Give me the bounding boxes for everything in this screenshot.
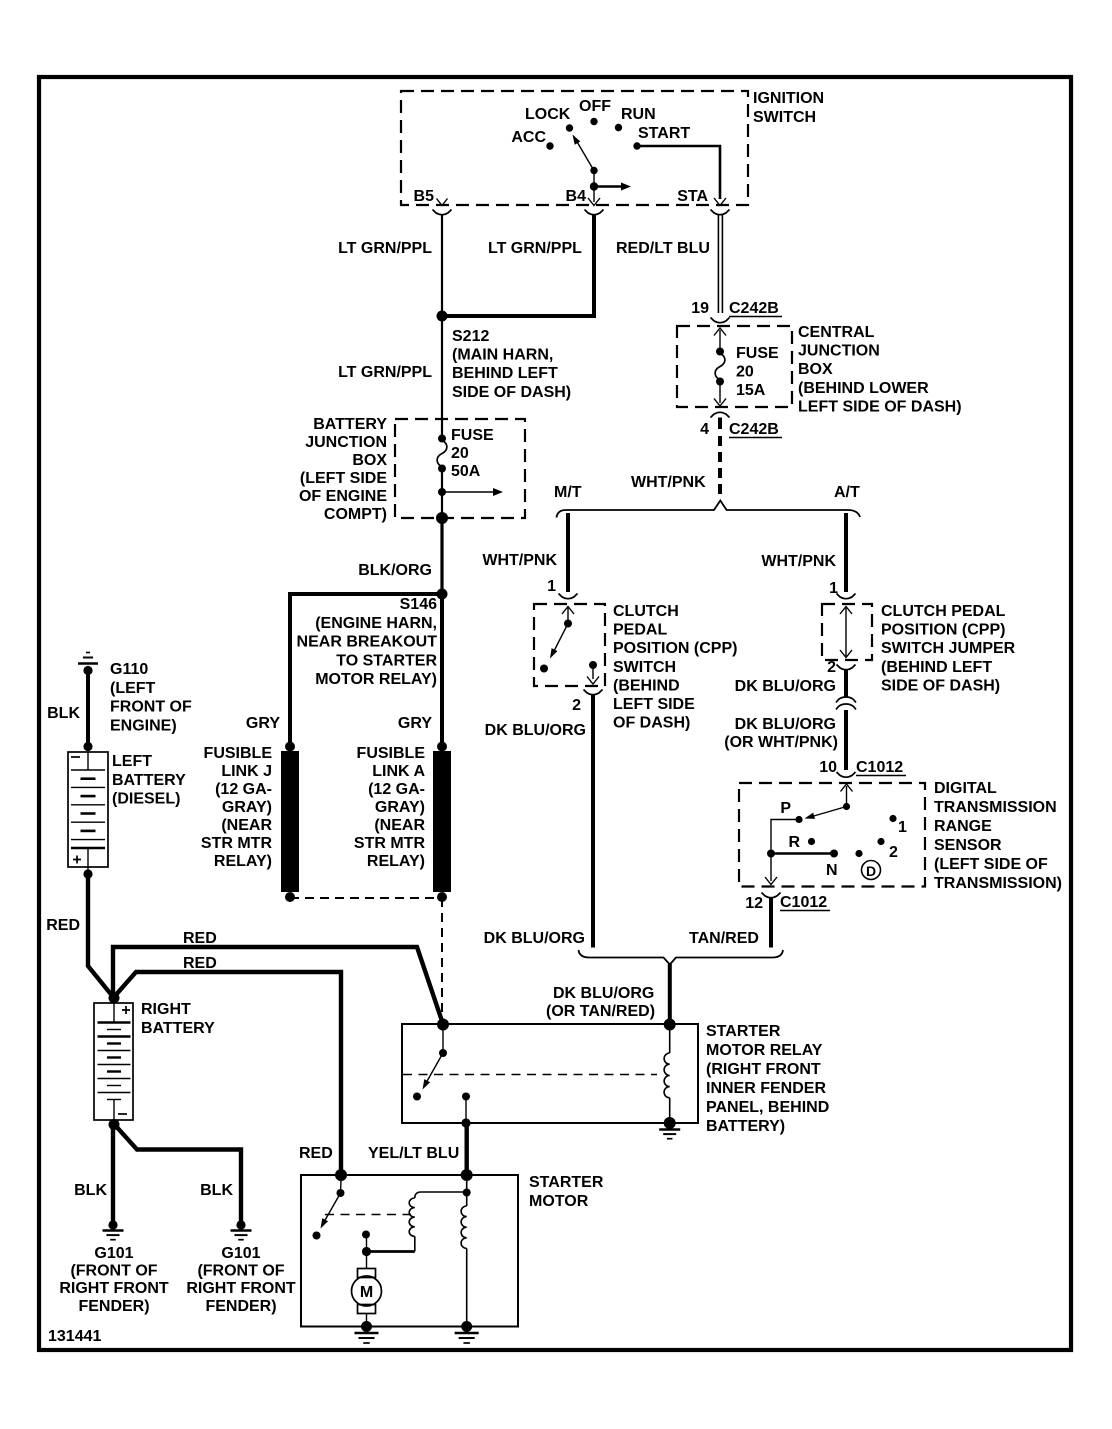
svg-text:20: 20 <box>451 445 469 462</box>
svg-text:(12 GA-: (12 GA- <box>368 781 425 798</box>
svg-text:LT GRN/PPL: LT GRN/PPL <box>488 240 582 257</box>
svg-text:50A: 50A <box>451 463 481 480</box>
svg-text:(OR TAN/RED): (OR TAN/RED) <box>546 1003 655 1020</box>
svg-text:MOTOR RELAY: MOTOR RELAY <box>706 1042 823 1059</box>
svg-text:CENTRAL: CENTRAL <box>798 324 875 341</box>
svg-text:RED/LT BLU: RED/LT BLU <box>616 240 710 257</box>
fusible link A <box>354 742 451 903</box>
svg-text:FENDER): FENDER) <box>205 1298 276 1315</box>
clutch pedal position switch jumper <box>822 603 1016 694</box>
BJB output node with arrow <box>438 488 503 496</box>
connector pin 2 CPP jumper <box>827 659 855 676</box>
svg-text:SWITCH: SWITCH <box>613 659 676 676</box>
svg-text:(LEFT SIDE OF: (LEFT SIDE OF <box>934 856 1048 873</box>
svg-text:START: START <box>638 125 690 142</box>
connector C1012 pin 10 <box>819 759 906 777</box>
svg-text:S212: S212 <box>452 328 489 345</box>
connector at B5 <box>433 210 452 215</box>
svg-text:4: 4 <box>700 421 709 438</box>
svg-text:MOTOR: MOTOR <box>529 1193 589 1210</box>
svg-text:TO STARTER: TO STARTER <box>336 652 437 669</box>
svg-text:STR MTR: STR MTR <box>354 835 426 852</box>
svg-text:TRANSMISSION: TRANSMISSION <box>934 799 1057 816</box>
svg-text:SIDE OF DASH): SIDE OF DASH) <box>452 384 571 401</box>
svg-text:B4: B4 <box>566 188 587 205</box>
terminal STA <box>677 188 726 206</box>
starter internal dashed link <box>325 1214 411 1216</box>
starter hold-in ground <box>455 1332 479 1334</box>
svg-text:DK BLU/ORG: DK BLU/ORG <box>735 678 836 695</box>
svg-text:BATTERY: BATTERY <box>141 1020 215 1037</box>
svg-text:FUSE: FUSE <box>451 427 494 444</box>
svg-text:15A: 15A <box>736 382 766 399</box>
svg-text:STARTER: STARTER <box>529 1174 604 1191</box>
svg-text:STARTER: STARTER <box>706 1023 781 1040</box>
svg-text:RED: RED <box>183 955 217 972</box>
svg-text:G110: G110 <box>110 661 148 678</box>
svg-text:10: 10 <box>819 759 837 776</box>
svg-text:LEFT: LEFT <box>112 753 152 770</box>
svg-text:TAN/RED: TAN/RED <box>689 930 759 947</box>
svg-text:RED: RED <box>299 1145 333 1162</box>
svg-text:(FRONT OF: (FRONT OF <box>70 1263 157 1280</box>
svg-text:DK BLU/ORG: DK BLU/ORG <box>484 930 585 947</box>
svg-text:GRAY): GRAY) <box>222 799 272 816</box>
svg-text:20: 20 <box>736 363 754 380</box>
svg-text:C1012: C1012 <box>856 759 903 776</box>
svg-text:BLK/ORG: BLK/ORG <box>358 562 432 579</box>
svg-text:NEAR BREAKOUT: NEAR BREAKOUT <box>297 634 438 651</box>
svg-text:S146: S146 <box>400 596 437 613</box>
ignition internal START wire <box>637 146 720 199</box>
connector at STA <box>711 210 730 215</box>
wire STA RED/LT BLU double line <box>616 215 722 313</box>
svg-text:(NEAR: (NEAR <box>221 817 272 834</box>
svg-text:LINK A: LINK A <box>372 763 425 780</box>
wire to C1012 DK BLU/ORG (OR WHT/PNK) <box>724 710 846 770</box>
connector C242B pin 19 <box>691 300 782 323</box>
right battery <box>94 993 215 1131</box>
svg-text:(RIGHT FRONT: (RIGHT FRONT <box>706 1061 821 1078</box>
ground G101 left <box>59 1220 169 1314</box>
svg-text:RUN: RUN <box>621 106 656 123</box>
dashed wire WHT/PNK from C242B <box>631 436 720 497</box>
svg-text:(DIESEL): (DIESEL) <box>112 791 180 808</box>
terminal B5 <box>414 188 448 206</box>
wire M/T WHT/PNK <box>482 513 568 595</box>
DTRS selector contacts <box>765 784 907 885</box>
starter motor relay box <box>402 1023 829 1135</box>
svg-text:(ENGINE HARN,: (ENGINE HARN, <box>315 615 437 632</box>
svg-text:JUNCTION: JUNCTION <box>798 343 880 360</box>
svg-text:R: R <box>788 834 800 851</box>
starter motor box <box>301 1174 604 1327</box>
wire B4 LT GRN/PPL <box>447 215 594 316</box>
svg-text:LT GRN/PPL: LT GRN/PPL <box>338 240 432 257</box>
svg-text:DK BLU/ORG: DK BLU/ORG <box>553 985 654 1002</box>
wire S212 to battery junction box LT GRN/PPL <box>338 316 442 438</box>
svg-text:IGNITION: IGNITION <box>753 90 824 107</box>
svg-text:(12 GA-: (12 GA- <box>215 781 272 798</box>
connector at B4 <box>585 210 604 215</box>
relay coil <box>664 1019 676 1130</box>
svg-text:C242B: C242B <box>729 421 779 438</box>
svg-text:1: 1 <box>898 819 907 836</box>
svg-text:SWITCH JUMPER: SWITCH JUMPER <box>881 640 1016 657</box>
svg-text:BEHIND LEFT: BEHIND LEFT <box>452 365 558 382</box>
ground G101 right <box>186 1220 296 1314</box>
relay switch <box>413 1019 471 1128</box>
wire A/T WHT/PNK <box>761 513 846 597</box>
svg-text:(OR WHT/PNK): (OR WHT/PNK) <box>724 734 838 751</box>
svg-text:MOTOR RELAY): MOTOR RELAY) <box>315 671 437 688</box>
svg-text:RELAY): RELAY) <box>367 853 425 870</box>
svg-text:(LEFT: (LEFT <box>110 680 156 697</box>
svg-text:LOCK: LOCK <box>525 106 571 123</box>
ignition switch rotary contacts <box>511 98 690 150</box>
wire CPP to merge DK BLU/ORG <box>484 695 593 948</box>
svg-text:GRY: GRY <box>246 715 280 732</box>
wire RED battery to relay <box>113 930 443 1024</box>
svg-text:2: 2 <box>572 697 581 714</box>
starter motor ground <box>355 1332 379 1334</box>
svg-text:SIDE OF DASH): SIDE OF DASH) <box>881 677 1000 694</box>
ground G110 <box>78 653 192 735</box>
relay ground <box>659 1128 680 1130</box>
svg-text:(NEAR: (NEAR <box>374 817 425 834</box>
relay internal dashed link <box>403 1074 657 1076</box>
svg-text:WHT/PNK: WHT/PNK <box>631 474 706 491</box>
svg-text:P: P <box>780 800 791 817</box>
svg-text:B5: B5 <box>414 188 435 205</box>
svg-text:INNER FENDER: INNER FENDER <box>706 1080 826 1097</box>
svg-text:POSITION (CPP): POSITION (CPP) <box>613 640 737 657</box>
svg-text:G101: G101 <box>221 1245 260 1262</box>
svg-text:DIGITAL: DIGITAL <box>934 780 997 797</box>
wire right battery to G101 BLK <box>74 1124 113 1225</box>
svg-text:SWITCH: SWITCH <box>753 109 816 126</box>
svg-text:RIGHT FRONT: RIGHT FRONT <box>59 1280 169 1297</box>
svg-text:RANGE: RANGE <box>934 818 992 835</box>
wire left battery to right battery RED <box>46 874 114 998</box>
left battery (diesel) <box>68 742 186 879</box>
BJB bottom junction <box>436 512 448 524</box>
svg-text:M: M <box>360 1284 373 1301</box>
svg-text:D: D <box>866 863 876 879</box>
svg-text:C1012: C1012 <box>780 894 827 911</box>
wire S146 to fusible links GRY <box>246 594 442 746</box>
svg-text:131441: 131441 <box>48 1328 101 1345</box>
CPP jumper arrow <box>840 607 852 658</box>
svg-text:BATTERY: BATTERY <box>313 416 387 433</box>
svg-text:GRAY): GRAY) <box>375 799 425 816</box>
svg-text:12: 12 <box>745 895 763 912</box>
starter motor M <box>352 1231 382 1333</box>
svg-text:FENDER): FENDER) <box>78 1298 149 1315</box>
svg-text:WHT/PNK: WHT/PNK <box>761 553 836 570</box>
dashed link between fusible links <box>290 897 442 899</box>
terminal B4 <box>566 188 600 206</box>
svg-text:(BEHIND LEFT: (BEHIND LEFT <box>881 659 992 676</box>
svg-text:BOX: BOX <box>798 361 833 378</box>
svg-text:DK BLU/ORG: DK BLU/ORG <box>485 722 586 739</box>
svg-text:BATTERY): BATTERY) <box>706 1118 785 1135</box>
svg-text:2: 2 <box>827 659 836 676</box>
svg-text:PEDAL: PEDAL <box>613 622 667 639</box>
wire TAN/RED <box>689 898 771 948</box>
svg-text:C242B: C242B <box>729 300 779 317</box>
fusible link J <box>201 742 299 903</box>
wire right battery to second G101 BLK <box>114 1124 241 1225</box>
svg-text:STA: STA <box>677 188 708 205</box>
svg-text:BOX: BOX <box>352 452 387 469</box>
svg-text:N: N <box>826 862 838 879</box>
starter solenoid switch <box>313 1169 348 1240</box>
clutch pedal position switch <box>534 603 737 732</box>
svg-text:19: 19 <box>691 300 709 317</box>
connector C1012 pin 12 <box>745 893 830 913</box>
wire B5 LT GRN/PPL <box>338 215 442 316</box>
svg-text:DK BLU/ORG: DK BLU/ORG <box>735 716 836 733</box>
svg-text:ACC: ACC <box>511 129 546 146</box>
svg-text:BLK: BLK <box>47 705 80 722</box>
svg-text:STR MTR: STR MTR <box>201 835 273 852</box>
svg-text:(MAIN HARN,: (MAIN HARN, <box>452 347 553 364</box>
svg-text:RIGHT FRONT: RIGHT FRONT <box>186 1280 296 1297</box>
svg-text:FUSE: FUSE <box>736 345 779 362</box>
svg-text:LEFT SIDE OF DASH): LEFT SIDE OF DASH) <box>798 398 962 415</box>
wire relay to starter YEL/LT BLU <box>368 1123 467 1175</box>
svg-text:(LEFT SIDE: (LEFT SIDE <box>300 470 387 487</box>
svg-text:(BEHIND LOWER: (BEHIND LOWER <box>798 380 929 397</box>
connector pin 2 CPP switch <box>572 690 602 715</box>
svg-text:TRANSMISSION): TRANSMISSION) <box>934 875 1062 892</box>
svg-text:PANEL, BEHIND: PANEL, BEHIND <box>706 1099 829 1116</box>
CPP switch contacts <box>540 607 599 685</box>
fuse 20 50A <box>437 427 494 518</box>
in-line connection symbol <box>836 697 856 710</box>
svg-text:2: 2 <box>889 844 898 861</box>
digital transmission range sensor box <box>739 780 1062 892</box>
svg-text:ENGINE): ENGINE) <box>110 717 177 734</box>
svg-text:SENSOR: SENSOR <box>934 837 1002 854</box>
battery junction box <box>299 416 525 523</box>
svg-text:1: 1 <box>547 578 556 595</box>
svg-text:COMPT): COMPT) <box>324 506 387 523</box>
svg-text:OF ENGINE: OF ENGINE <box>299 488 387 505</box>
svg-text:FUSIBLE: FUSIBLE <box>357 745 426 762</box>
splice S212 <box>437 311 572 401</box>
starter hold-in winding <box>461 1169 473 1332</box>
svg-text:CLUTCH: CLUTCH <box>613 603 679 620</box>
svg-text:LT GRN/PPL: LT GRN/PPL <box>338 364 432 381</box>
svg-text:(FRONT OF: (FRONT OF <box>197 1263 284 1280</box>
svg-text:FUSIBLE: FUSIBLE <box>204 745 273 762</box>
svg-text:LEFT SIDE: LEFT SIDE <box>613 696 695 713</box>
wire merge to relay DK BLU/ORG (OR TAN/RED) <box>546 964 670 1024</box>
svg-text:BATTERY: BATTERY <box>112 772 186 789</box>
svg-text:RED: RED <box>183 930 217 947</box>
svg-text:OFF: OFF <box>579 98 611 115</box>
svg-text:YEL/LT BLU: YEL/LT BLU <box>368 1145 459 1162</box>
svg-text:BLK: BLK <box>74 1182 107 1199</box>
svg-text:A/T: A/T <box>834 484 860 501</box>
svg-text:FRONT OF: FRONT OF <box>110 699 192 716</box>
splice S146 <box>297 589 448 689</box>
svg-text:WHT/PNK: WHT/PNK <box>482 552 557 569</box>
wire BJB to S146 BLK/ORG <box>440 518 443 594</box>
svg-text:LINK J: LINK J <box>221 763 272 780</box>
ignition switch box <box>401 90 824 205</box>
svg-text:M/T: M/T <box>554 484 582 501</box>
starter pull-in winding <box>367 1192 466 1252</box>
svg-text:RIGHT: RIGHT <box>141 1001 191 1018</box>
wire RED battery to starter motor <box>114 955 341 1175</box>
svg-text:POSITION (CPP): POSITION (CPP) <box>881 622 1005 639</box>
connector pin 1 CPP jumper <box>837 594 856 599</box>
central junction box <box>677 324 962 415</box>
split bracket M/T A/T <box>554 484 860 518</box>
svg-text:RED: RED <box>46 917 80 934</box>
connector pin 1 CPP switch <box>559 594 578 599</box>
dashed wire fusible links to relay <box>441 898 443 1022</box>
connector C242B pin 4 <box>700 412 782 438</box>
svg-text:JUNCTION: JUNCTION <box>305 434 387 451</box>
wire jumper to inline connector DK BLU/ORG <box>735 670 846 697</box>
svg-text:CLUTCH PEDAL: CLUTCH PEDAL <box>881 603 1006 620</box>
svg-text:RELAY): RELAY) <box>214 853 272 870</box>
wire G110 to left battery BLK <box>47 671 88 746</box>
svg-text:BLK: BLK <box>200 1182 233 1199</box>
fuse 20 15A <box>714 328 779 406</box>
svg-text:(BEHIND: (BEHIND <box>613 677 680 694</box>
svg-text:GRY: GRY <box>398 715 432 732</box>
svg-text:OF DASH): OF DASH) <box>613 715 690 732</box>
svg-text:G101: G101 <box>94 1245 133 1262</box>
merge bracket to starter motor relay <box>579 950 784 965</box>
ignition switch lever <box>573 135 632 191</box>
